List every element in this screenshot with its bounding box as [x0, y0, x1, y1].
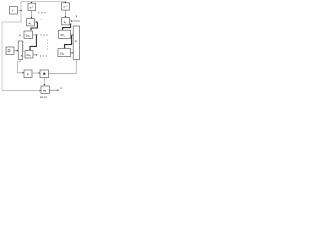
multiplier box D	[40, 70, 49, 78]
summer box R2	[58, 49, 71, 57]
wire Z2 to A2	[65, 10, 67, 16]
wire D output down into M	[43, 78, 45, 85]
svg-text:f: f	[12, 9, 13, 13]
commutator tall box TR	[73, 26, 79, 60]
summer box S1	[24, 31, 33, 38]
summer box S2	[59, 30, 71, 38]
wire TR output down and left into D	[49, 60, 77, 74]
wire Z1 to A1	[31, 11, 33, 18]
summer box R1	[25, 51, 33, 58]
svg-text:Σb1: Σb1	[60, 33, 64, 38]
delay z^-1 Z2	[62, 3, 70, 10]
box L1	[6, 47, 14, 55]
wire L1 output into TL	[14, 50, 17, 52]
svg-text:Σbk: Σbk	[60, 52, 64, 57]
wire bend S1 to R1	[30, 35, 36, 49]
svg-text:Σa2: Σa2	[26, 53, 30, 58]
wire vertical feed x21	[20, 2, 22, 22]
svg-text:s2: s2	[21, 53, 23, 58]
svg-text:z-1: z-1	[63, 5, 67, 9]
wire R1 output	[33, 54, 37, 56]
wire bottom feed into M	[2, 90, 40, 92]
wire R2 output into TR	[71, 52, 73, 54]
svg-text:k: k	[76, 14, 78, 18]
dots R1 output continuation	[40, 55, 41, 56]
svg-text:s': s'	[60, 86, 63, 90]
decision box M	[41, 86, 50, 93]
svg-text:P: P	[27, 73, 29, 77]
svg-text:z-1: z-1	[30, 6, 34, 10]
svg-text:ak: ak	[64, 20, 67, 25]
wire k input into A2	[71, 20, 80, 22]
dots S1 output continuation	[40, 34, 41, 35]
wire A1 output bend into S1	[35, 21, 38, 23]
node junction at B1 output	[20, 10, 22, 12]
coefficient box A2	[62, 18, 70, 25]
svg-text:s1: s1	[19, 33, 21, 38]
svg-text:Σa1: Σa1	[26, 33, 30, 38]
wire TL output jog to P	[18, 60, 23, 73]
dots delay-line continuation	[38, 12, 39, 13]
coefficient box A1	[27, 19, 35, 26]
wire left edge vertical x2	[1, 22, 3, 91]
wire top bus	[21, 1, 66, 3]
wire arrow into delay Z2	[65, 1, 67, 4]
svg-text:a1: a1	[29, 21, 32, 26]
svg-text:m: m	[43, 88, 46, 92]
wire arrow into delay Z1	[31, 1, 33, 4]
selector narrow box TL	[18, 41, 22, 60]
svg-text:(m-1): (m-1)	[40, 95, 47, 99]
svg-text:c: c	[41, 19, 43, 21]
wire S1 output	[33, 34, 37, 36]
wire S2 output into TR	[71, 34, 73, 36]
wire bend S2 to R2	[65, 35, 72, 47]
wire P output into D	[32, 72, 39, 74]
box P	[24, 70, 32, 78]
wire horizontal y22 to left edge	[2, 21, 21, 23]
oscillator box B1	[10, 7, 18, 14]
delay z^-1 Z1	[28, 3, 36, 10]
wire M output	[50, 89, 58, 91]
wire B1 output	[18, 10, 22, 12]
svg-text:P: P	[75, 40, 77, 44]
vertical ellipsis middle	[47, 40, 49, 50]
vertical ellipsis left column	[23, 42, 25, 52]
wire A2 output bend into S2	[63, 24, 71, 30]
